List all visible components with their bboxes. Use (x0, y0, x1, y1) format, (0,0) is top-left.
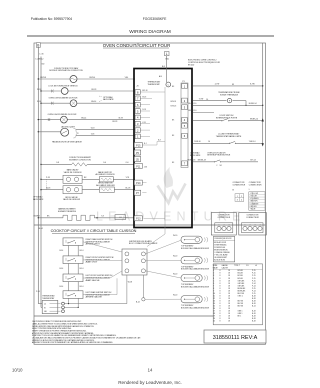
lo-limit row wire (193, 142, 229, 144)
oven light 1 row wire (41, 102, 70, 104)
connector L row (249, 204, 265, 206)
terminal block box (42, 300, 58, 313)
svg-text:P1: P1 (182, 81, 184, 83)
latch switch symbol right (214, 161, 215, 162)
latch out wire 2 (76, 134, 135, 136)
oven light 2 connector (48, 118, 50, 121)
P15 wires (142, 144, 157, 146)
svg-text:BOUGIE D'ALLUMAGE BRULEUR: BOUGIE D'ALLUMAGE BRULEUR (181, 268, 210, 271)
svg-text:CONNECTEUR: CONNECTEUR (246, 217, 259, 219)
svg-text:ELEMENT CONVECTION: ELEMENT CONVECTION (69, 159, 91, 161)
svg-text:MOTEUR VENTILATION CONVECTION: MOTEUR VENTILATION CONVECTION (49, 69, 83, 72)
svg-text:ES 400: ES 400 (188, 64, 194, 66)
lock motor connector (51, 90, 53, 93)
svg-text:CONNECTEUR: CONNECTEUR (233, 185, 246, 187)
svg-text:2-YW: 2-YW (215, 84, 220, 86)
svg-text:BLOC CONNECTEUR ALLUMEUR: BLOC CONNECTEUR ALLUMEUR (129, 242, 158, 245)
door switch symbol (221, 120, 222, 121)
convection fan motor row wire (38, 78, 70, 80)
svg-text:ALLUMEUR GRILLER: ALLUMEUR GRILLER (96, 184, 115, 187)
banked element small box label (115, 215, 126, 220)
J3 pin 2 (135, 128, 140, 133)
P7 stub (142, 192, 146, 194)
svg-text:THERMOSTAT: THERMOSTAT (42, 297, 55, 300)
svg-text:BL/BK-14: BL/BK-14 (249, 103, 257, 105)
bus tails into terminals (38, 303, 42, 305)
EOC pin P5 (134, 150, 140, 155)
oven light 1 connector (51, 102, 53, 105)
svg-text:8-YW: 8-YW (250, 84, 255, 86)
color key box (213, 236, 234, 262)
module terminal pair (125, 252, 129, 256)
convection element resistor (72, 163, 88, 166)
svg-text:ASSUREZ D'UN BON FONCTIONNEMEN: ASSUREZ D'UN BON FONCTIONNEMENT DE L'APP… (32, 341, 113, 344)
svg-text:BK/BK-18: BK/BK-18 (198, 160, 206, 162)
svg-text:VALVE DE GRILLER: VALVE DE GRILLER (63, 198, 81, 201)
svg-text:W-18: W-18 (128, 281, 132, 283)
P1 pin 2 (182, 98, 187, 103)
latch out wire 1 (76, 128, 135, 130)
svg-text:10: 10 (206, 99, 208, 101)
svg-text:B-14: B-14 (60, 250, 64, 252)
svg-text:FACULTATIF: FACULTATIF (33, 198, 44, 201)
P10 stub (142, 182, 146, 184)
svg-text:W-20: W-20 (173, 273, 177, 275)
header rule (27, 35, 274, 37)
svg-text:BOUGIE D'ALLUMAGE BRULEUR: BOUGIE D'ALLUMAGE BRULEUR (181, 247, 210, 250)
svg-text:L: L (166, 52, 168, 56)
burner igniter switch 2 (63, 256, 83, 264)
svg-text:OR-78: OR-78 (91, 89, 96, 91)
svg-text:W-78: W-78 (119, 117, 123, 119)
svg-text:B-14: B-14 (80, 250, 84, 252)
svg-text:W-20: W-20 (173, 295, 177, 297)
svg-text:BOUGIE D'ALLUMAGE BRULEUR: BOUGIE D'ALLUMAGE BRULEUR (181, 285, 210, 288)
svg-text:BK/BK-10: BK/BK-10 (189, 110, 197, 112)
svg-text:O-6: O-6 (126, 162, 129, 164)
pin3 stub wire (193, 112, 214, 114)
latch switch symbol (61, 128, 69, 136)
svg-text:B-14: B-14 (39, 228, 43, 230)
svg-text:COOKTOP CIRCUIT // CIRCUIT TAB: COOKTOP CIRCUIT // CIRCUIT TABLE CUISSON (51, 229, 137, 233)
bus arrowhead (262, 118, 264, 121)
svg-text:Y-80: Y-80 (125, 77, 129, 79)
svg-text:P15: P15 (136, 144, 141, 147)
svg-text:Y-BK-10: Y-BK-10 (194, 141, 201, 143)
burner spark electrode 4 (181, 296, 202, 303)
svg-text:L1-BK-12: L1-BK-12 (36, 59, 44, 61)
svg-text:BL-78: BL-78 (126, 188, 131, 190)
connector L row (249, 207, 265, 209)
EOC pin P13 (134, 216, 142, 221)
svg-text:3: 3 (255, 225, 256, 227)
EOC pin P11 (134, 163, 142, 168)
door switch row wire (193, 120, 222, 122)
svg-text:CO.: CO. (246, 265, 250, 267)
svg-text:BOUGIE D'ALLUMAGE BRULEUR: BOUGIE D'ALLUMAGE BRULEUR (181, 307, 210, 310)
svg-text:P11: P11 (136, 165, 141, 168)
svg-text:B/W-18: B/W-18 (171, 101, 177, 103)
svg-text:10/10: 10/10 (12, 368, 23, 373)
svg-text:BL BLUE BLEU: BL BLUE BLEU (214, 260, 225, 262)
svg-text:ORG 1: ORG 1 (238, 295, 243, 297)
svg-text:B-14: B-14 (80, 268, 84, 270)
svg-text:318550111 REV:A: 318550111 REV:A (213, 335, 258, 341)
EOC pin P15 (134, 143, 142, 148)
svg-text:FACULTATIF: FACULTATIF (103, 98, 115, 101)
part number box (204, 330, 266, 343)
oven light 1 lamp (70, 100, 77, 107)
svg-text:W-20: W-20 (173, 235, 177, 237)
svg-text:1: 1 (219, 225, 220, 227)
svg-text:BK 1: BK 1 (238, 316, 242, 318)
convection element row wire (41, 163, 72, 165)
terminal row extensions (64, 303, 127, 305)
svg-text:B-1: B-1 (144, 143, 147, 145)
burner igniter switch 1 (63, 238, 83, 246)
burner spark electrode 2 (181, 257, 202, 264)
svg-text:P13: P13 (136, 218, 141, 221)
EOC inner bus (164, 87, 166, 219)
zone letter B box (36, 43, 40, 48)
svg-text:B-14: B-14 (80, 286, 84, 288)
connector L row (249, 199, 265, 201)
connector L row (249, 201, 265, 203)
svg-text:GN-14: GN-14 (91, 101, 96, 103)
connector pin circle (243, 226, 247, 230)
cooktop switch chain wires (68, 246, 70, 291)
broil valve symbol (63, 186, 82, 194)
svg-text:4: 4 (241, 200, 242, 202)
svg-text:O-4: O-4 (103, 162, 106, 164)
svg-text:ALLUMEUR CUISSON: ALLUMEUR CUISSON (96, 173, 116, 176)
latch brace (73, 128, 78, 138)
svg-text:1: 1 (237, 196, 238, 198)
burner igniter switch 4 (63, 291, 83, 299)
svg-text:AVANT DROIT: AVANT DROIT (86, 261, 99, 264)
connector pin circle (227, 226, 231, 230)
svg-text:GAGE: GAGE (213, 266, 219, 269)
svg-text:TYPE T: TYPE T (234, 265, 240, 267)
cooktop section bottom divider (34, 315, 213, 317)
svg-text:P10: P10 (136, 182, 141, 185)
convection fan motor symbol (70, 76, 77, 83)
P1 pin 7 (182, 161, 187, 166)
P13 wire to inner bus (144, 217, 166, 219)
svg-text:LOCK MOTOR/MOTEUR VERROU: LOCK MOTOR/MOTEUR VERROU (48, 85, 78, 87)
igniter module board box (122, 249, 147, 275)
latch switch wire (38, 131, 60, 133)
probe symbol (227, 98, 231, 102)
svg-text:WIRING DIAGRAM: WIRING DIAGRAM (129, 29, 171, 35)
svg-text:FACULTATIF: FACULTATIF (190, 154, 201, 157)
svg-text:T-18: T-18 (91, 133, 95, 135)
banked element row wire (38, 217, 63, 219)
svg-text:83: 83 (232, 84, 234, 86)
svg-text:BK/ BK: BK/ BK (238, 305, 244, 307)
J3 pin 6 (135, 102, 140, 107)
svg-text:L1: L1 (44, 304, 46, 306)
burner spark electrode 3 (181, 274, 202, 281)
connector L row (249, 196, 265, 198)
svg-text:Y-78: Y-78 (126, 177, 130, 179)
bake valve symbol (63, 175, 82, 183)
J3 pin 1 (135, 134, 140, 139)
svg-text:10: 10 (208, 141, 210, 143)
svg-text:OVEN LIGHT/LUMIERE DU FOUR: OVEN LIGHT/LUMIERE DU FOUR (49, 97, 78, 99)
EOC control board outline (134, 69, 192, 228)
svg-text:2: 2 (250, 225, 251, 227)
connector pin circle (258, 226, 262, 230)
EOC pin P7 (134, 190, 140, 195)
svg-text:BK/BK-14: BK/BK-14 (250, 119, 258, 121)
svg-text:Y-YW: Y-YW (199, 99, 204, 101)
svg-text:O-8: O-8 (56, 162, 59, 164)
right bus (262, 43, 264, 144)
svg-text:ELEMENT RESERVE: ELEMENT RESERVE (58, 211, 77, 213)
burner igniter switch 3 (63, 274, 83, 282)
broil valve row wire (41, 189, 63, 191)
lo-limit switch symbol (229, 143, 230, 144)
svg-text:OVEN CONDUIT//CIRCUIT FOUR: OVEN CONDUIT//CIRCUIT FOUR (103, 43, 171, 48)
J3 pin 3 (135, 121, 140, 126)
svg-text:OR-78: OR-78 (112, 121, 117, 123)
connector face box left (211, 213, 236, 236)
svg-text:3: 3 (237, 200, 238, 202)
svg-text:B/Y-14: B/Y-14 (250, 160, 255, 162)
pin1 row wire (193, 85, 263, 87)
svg-text:THERMOSTAT: THERMOSTAT (148, 83, 161, 86)
svg-text:GN GREEN/VERT: GN GREEN/VERT (214, 257, 227, 259)
svg-text:P-14: P-14 (36, 291, 40, 293)
svg-text:OR/R-8: OR/R-8 (40, 77, 46, 79)
wires module to electrodes (145, 240, 181, 254)
svg-text:B-14: B-14 (60, 286, 64, 288)
diagram outer frame (34, 43, 266, 344)
svg-text:B-14: B-14 (60, 268, 64, 270)
svg-text:B: B (37, 44, 39, 48)
watermark flame logo (158, 167, 186, 203)
oven light 2 row wire (38, 119, 60, 121)
svg-text:OR/R-4: OR/R-4 (89, 77, 95, 79)
svg-text:BK/W-8: BK/W-8 (34, 216, 40, 218)
wires switch to module (83, 242, 122, 252)
section divider oven/cooktop (34, 224, 266, 226)
connector pin circle (253, 226, 257, 230)
wire gauge table box (213, 264, 262, 325)
wire from L box to EOC (166, 56, 168, 82)
J3 pin 8 (135, 90, 140, 95)
svg-text:L-8: L-8 (119, 217, 122, 219)
svg-text:W-20: W-20 (173, 256, 177, 258)
svg-text:8: 8 (220, 321, 221, 323)
svg-text:BR BROWN BRUN: BR BROWN BRUN (214, 250, 227, 252)
svg-text:VALVE DE CUISSON: VALVE DE CUISSON (64, 171, 82, 174)
P1 pin 6 (182, 133, 187, 138)
svg-text:R-18: R-18 (142, 109, 146, 111)
P1 pin 5 (182, 123, 187, 128)
EOC pin P10 (134, 180, 142, 185)
svg-text:Publication No: 5995577904: Publication No: 5995577904 (31, 17, 73, 21)
svg-text:GN-14: GN-14 (81, 117, 86, 119)
module below-box wires (126, 275, 128, 304)
J3 pin 5 (135, 109, 140, 114)
left bus N (40, 57, 42, 307)
svg-text:4: 4 (260, 225, 261, 227)
connector face box right (239, 213, 266, 236)
P1 pin 3 (182, 105, 187, 110)
probe return row wire (193, 104, 263, 106)
connector pin circle (222, 226, 226, 230)
svg-text:B-14: B-14 (136, 302, 140, 304)
svg-text:INTERRUPTEUR MOTEUR: INTERRUPTEUR MOTEUR (207, 155, 231, 157)
connector pin circle (248, 226, 252, 230)
svg-text:B-8: B-8 (158, 140, 161, 142)
zone letter L box (165, 52, 170, 56)
svg-text:ARRIERE GAUCHE: ARRIERE GAUCHE (86, 296, 103, 299)
connector L row (249, 193, 265, 195)
burner spark electrode 1 (181, 236, 202, 243)
svg-text:OVEN LIGHT/LUMIERE DU FOUR: OVEN LIGHT/LUMIERE DU FOUR (48, 114, 77, 116)
P1 pin 4 (182, 117, 187, 122)
svg-text:FAN ANTICHUTE/LE VENTILATEUR: FAN ANTICHUTE/LE VENTILATEUR (52, 140, 82, 143)
svg-text:SONDE THERMIQUE: SONDE THERMIQUE (220, 94, 239, 96)
broil ignitor symbol (99, 187, 114, 192)
bake ignitor symbol (99, 177, 113, 182)
svg-text:CONNECTEUR: CONNECTEUR (249, 185, 262, 187)
oven light 2 lamp (61, 116, 68, 123)
svg-text:V-18: V-18 (91, 128, 95, 130)
svg-text:18: 18 (228, 321, 230, 323)
svg-text:COULEUR/QUE KOLOR: COULEUR/QUE KOLOR (214, 238, 232, 240)
svg-text:5 ORANGE: 5 ORANGE (250, 202, 260, 205)
svg-text:7 BLUE: 7 BLUE (250, 209, 257, 211)
svg-text:P-18: P-18 (46, 177, 50, 179)
svg-text:R-14: R-14 (37, 101, 41, 103)
J3 pin 4 (135, 115, 140, 120)
svg-text:V-18: V-18 (142, 122, 146, 124)
svg-text:W-18: W-18 (37, 89, 41, 91)
banked element symbol (63, 215, 95, 220)
box4 drop wires (68, 298, 70, 303)
bake valve row wire (41, 178, 63, 180)
vertical feed from EOC P13 (164, 228, 166, 235)
EOC pin Z6 (134, 157, 140, 162)
svg-text:3: 3 (229, 225, 230, 227)
lock motor symbol (61, 88, 68, 95)
svg-text:B/R-18: B/R-18 (142, 90, 147, 92)
svg-text:R RED/ROUGE: R RED/ROUGE (214, 247, 225, 249)
latch row wire (193, 161, 214, 163)
svg-text:T-8: T-8 (101, 216, 104, 218)
svg-text:B-8: B-8 (162, 66, 165, 68)
J3 pin wires inside (140, 91, 165, 93)
svg-text:B-14: B-14 (252, 305, 256, 307)
svg-text:BL/BK-10: BL/BK-10 (189, 103, 197, 105)
svg-text:1: 1 (245, 225, 246, 227)
svg-text:CONNECTEUR: CONNECTEUR (217, 217, 230, 219)
J3 pin 7 (135, 96, 140, 101)
svg-text:21: 21 (213, 321, 215, 323)
svg-text:Rendered by LeadVenture, Inc.: Rendered by LeadVenture, Inc. (118, 380, 182, 385)
svg-text:2: 2 (241, 196, 242, 198)
svg-text:CAL/OR: CAL/OR (222, 266, 229, 269)
svg-text:AVANT GAUCHE: AVANT GAUCHE (86, 279, 101, 282)
svg-text:FGGS3065KFE: FGGS3065KFE (143, 17, 167, 21)
left bus L1 (37, 48, 39, 304)
svg-text:THERMOSTAT BASSE LIMITE: THERMOSTAT BASSE LIMITE (216, 135, 242, 138)
svg-text:BK/BK-18: BK/BK-18 (187, 160, 195, 162)
module terminal pair (125, 269, 129, 273)
svg-text:B-18: B-18 (252, 321, 256, 323)
P1 pin 1 (182, 84, 187, 89)
connector pin circle (217, 226, 221, 230)
lock motor row wire (41, 90, 61, 92)
lo-limit junction arrow (262, 143, 264, 146)
svg-text:2: 2 (224, 225, 225, 227)
svg-text:W-18: W-18 (142, 97, 146, 99)
module terminal pair (125, 259, 129, 263)
probe row wire (193, 100, 227, 102)
svg-text:Y-BK-14: Y-BK-14 (249, 141, 256, 143)
svg-text:R/W-18: R/W-18 (171, 106, 177, 108)
svg-text:L: L (249, 189, 250, 191)
svg-text:14: 14 (148, 368, 153, 373)
